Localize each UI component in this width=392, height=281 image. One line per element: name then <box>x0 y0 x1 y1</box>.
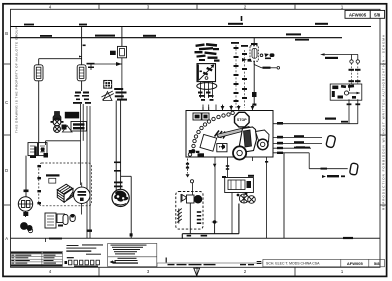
cable wrap ellipse <box>197 83 217 90</box>
cab body <box>240 127 257 152</box>
bottom wire of module <box>182 204 239 239</box>
connector mark on x=90 wire <box>87 230 92 232</box>
console icon boxes top-left <box>193 113 201 120</box>
bus2 right-end label <box>295 39 309 41</box>
STOP octagon <box>235 112 250 127</box>
connector stub right of F2 <box>90 65 92 71</box>
coil box <box>187 195 195 203</box>
svg-text:C: C <box>5 100 8 105</box>
K1 bottom wire <box>231 193 233 234</box>
small text smudge near strip left <box>46 238 63 242</box>
lower connector cluster <box>45 213 65 228</box>
breaker CB1 on x=122 <box>118 46 127 57</box>
branch down from y=148.7 wire at x=284 <box>283 153 285 238</box>
connector X1 cluster left <box>28 143 47 156</box>
relay K1 horizontal <box>225 178 254 193</box>
main motor pump circle <box>112 189 129 206</box>
svg-text:REPRODUCTION FORBIDDEN WITHOUT: REPRODUCTION FORBIDDEN WITHOUT WRITTEN A… <box>382 35 386 210</box>
junction dot <box>212 220 218 233</box>
dash-dot chain below console left <box>187 159 189 174</box>
wire tap x=254 from bus2 <box>253 38 255 47</box>
wire tick marks near x=81.6 <box>79 45 86 58</box>
boom <box>217 127 251 138</box>
legend table text smudges <box>11 252 62 266</box>
fuse F2 <box>77 65 86 81</box>
key switch S1 text cluster <box>195 43 220 62</box>
diagonal wire and stub <box>254 61 279 69</box>
svg-text:D: D <box>5 168 8 173</box>
branch wire into x=122 at y=64 <box>91 58 122 100</box>
wire F1 down to connector X1 <box>38 81 40 143</box>
asterisk icon left of CB1 <box>110 51 116 55</box>
double wire down to motor M1 <box>116 101 120 191</box>
relay cluster box right <box>330 84 362 100</box>
horn bottom stub <box>25 211 27 217</box>
wires from relay cluster down to console feed <box>273 99 358 124</box>
column top labels <box>231 42 248 47</box>
fork carriage hatch <box>215 131 228 139</box>
title bar tiny cells text <box>168 264 255 265</box>
zone letters left <box>5 31 8 241</box>
svg-text:STOP: STOP <box>237 118 247 122</box>
svg-text:5/8: 5/8 <box>374 12 381 17</box>
motor circle MOT <box>74 187 90 203</box>
wire tap from bus1 at x=81.6 <box>39 27 82 65</box>
label right mid <box>322 175 345 178</box>
left hatch <box>177 209 182 224</box>
zone ticks left <box>4 64 11 205</box>
notes text block <box>108 243 157 266</box>
dashed relay module box <box>176 192 203 234</box>
zone numbers bottom <box>49 269 344 274</box>
contact marks column1 <box>234 47 239 102</box>
label box inside dashed enclosure <box>46 174 60 176</box>
relay K0 on x=254 <box>250 46 258 61</box>
switch contact right of K0 <box>260 53 274 59</box>
connector P1 <box>326 135 336 148</box>
dashed enclosure box around solenoid+motor <box>39 163 92 206</box>
wire tap x=122 from bus1 <box>121 27 123 47</box>
title strip top line <box>11 237 381 239</box>
console indicator circle arc <box>188 111 234 156</box>
implement tilted square <box>200 134 217 151</box>
console wires right middle <box>273 138 348 169</box>
revision triangle <box>194 268 200 275</box>
wire cluster to horn <box>25 156 27 197</box>
hourmeter cluster icons <box>104 81 112 89</box>
svg-text:5/8: 5/8 <box>374 261 380 266</box>
dark mark on strip line right <box>343 237 353 239</box>
rear body hood <box>256 130 270 144</box>
small A icon <box>62 126 72 132</box>
svg-text:THIS DRAWING IS THE PROPERTY O: THIS DRAWING IS THE PROPERTY OF HAULOTTE… <box>15 27 19 133</box>
three wires down from cluster <box>81 104 91 238</box>
bus labels <box>24 23 328 37</box>
zone ticks top <box>99 5 295 10</box>
dark blobs below horn <box>20 222 32 231</box>
svg-text:AFW005: AFW005 <box>347 261 364 266</box>
console bottom pins <box>215 157 267 238</box>
dashed contact column 1 <box>235 45 237 108</box>
right pin marks <box>197 211 201 224</box>
exclamation mark symbol <box>166 258 167 263</box>
svg-text:A: A <box>5 236 8 241</box>
tick above bus1 <box>241 16 243 21</box>
svg-text:B: B <box>5 31 8 36</box>
key wire labels <box>198 92 214 101</box>
diode circles <box>237 192 256 203</box>
console small icon box bottom <box>217 144 227 152</box>
hourmeter box labels <box>62 112 87 131</box>
svg-text:SCH. ELEC T. MODS CHINA CSA: SCH. ELEC T. MODS CHINA CSA <box>266 262 320 266</box>
bus +BATT (top) <box>11 26 372 28</box>
fuse F1 <box>34 65 43 81</box>
sheet id box top-right: AFW005 5/8 <box>345 10 385 18</box>
horn symbol left of coil <box>182 195 186 202</box>
front wheel <box>233 146 246 159</box>
key switch S1 box <box>197 64 216 82</box>
x=254 continues down <box>253 61 255 105</box>
projection symbol <box>257 261 262 264</box>
console top pins <box>203 105 253 111</box>
contact marks column2 <box>242 53 247 99</box>
dashes down to relay cluster <box>352 63 358 83</box>
3D hatched solenoid <box>57 184 73 202</box>
dashed contact column 2 <box>244 50 246 108</box>
dip switch row <box>69 260 100 265</box>
wire horizontal y=140.8 <box>46 141 81 145</box>
connector P2 <box>349 163 358 175</box>
vehicle telehandler <box>200 127 269 160</box>
lamp stack icons <box>51 112 64 133</box>
legend table bottom-left <box>10 252 62 267</box>
rear wheel <box>257 139 268 150</box>
diode dark circle <box>194 195 202 203</box>
zone ticks right <box>380 64 387 205</box>
connector marks on double wire <box>114 162 123 188</box>
connector cluster under F2 <box>73 92 91 104</box>
middle options block <box>66 244 103 258</box>
inner vertical wire <box>189 203 191 234</box>
four key wires down <box>201 82 223 111</box>
horn H1 <box>18 197 32 211</box>
svg-text:AFW005: AFW005 <box>349 12 367 17</box>
connector marks right <box>114 88 127 101</box>
arrow glyph <box>110 260 117 263</box>
console bottom-left dark cells <box>189 150 195 153</box>
zone numbers top <box>49 5 344 10</box>
bus +KEY.15 (second) <box>11 37 343 39</box>
zone ticks bottom <box>99 267 295 276</box>
wire F2 down to connector cluster <box>81 81 83 91</box>
right area: KEY.50 wire <box>325 55 360 64</box>
title bar row <box>157 259 385 266</box>
